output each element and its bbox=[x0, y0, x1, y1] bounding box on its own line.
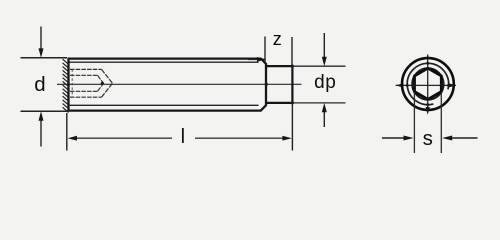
svg-text:s: s bbox=[423, 127, 433, 150]
svg-text:d: d bbox=[34, 73, 45, 96]
svg-text:dp: dp bbox=[314, 72, 336, 93]
svg-text:l: l bbox=[181, 126, 185, 148]
svg-text:z: z bbox=[273, 29, 282, 49]
